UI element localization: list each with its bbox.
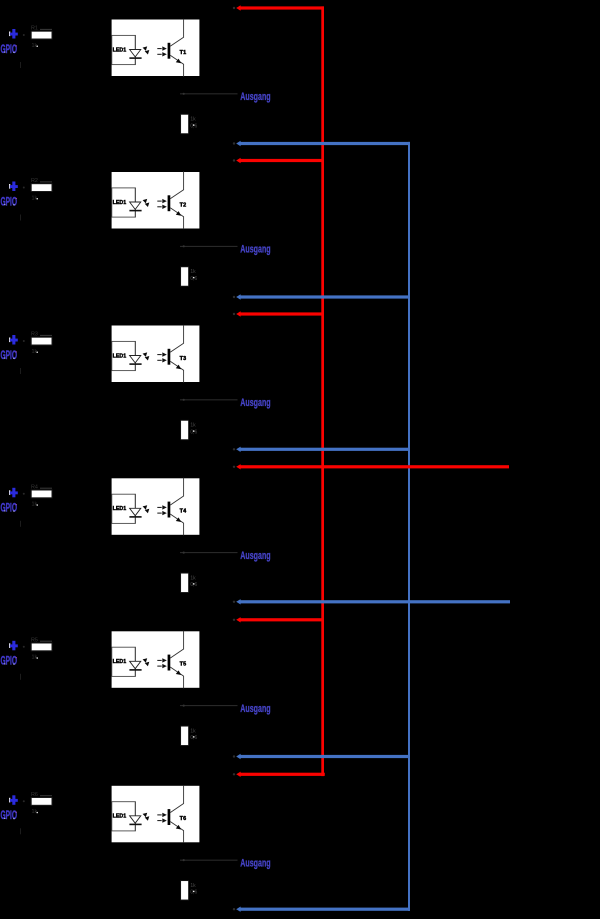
svg-text:1k: 1k (190, 575, 196, 581)
transistor T2 collector wire (170, 171, 183, 198)
wire: emitter to output port (ghost) block 1 (180, 92, 238, 95)
svg-text:R5: R5 (31, 637, 38, 643)
node: output junction dot block 2 (183, 245, 185, 247)
svg-text:0,6: 0,6 (190, 429, 197, 435)
transistor T3 emitter arrowhead (176, 365, 181, 370)
node: LED compartment box U4 (112, 494, 136, 523)
resistor R3b pulldown body (181, 420, 189, 439)
diode LED1 symbol U4 (130, 508, 141, 515)
diode LED1 symbol U5 (130, 661, 141, 668)
node: junction dot at red terminal block 2 (233, 159, 235, 161)
transistor T6 base bar (168, 809, 171, 825)
node: + input port marker block 3 (9, 338, 10, 343)
node: blue net arrow terminal block 1 (236, 141, 240, 146)
node: photo arrows into transistor U4 (157, 507, 161, 508)
svg-text:R1: R1 (31, 26, 38, 32)
svg-text:Ausgang: Ausgang (240, 244, 270, 256)
node: + input port marker block 1 (9, 32, 10, 37)
node: - return port ghost block 5 (20, 674, 21, 680)
svg-text:GPIO: GPIO (1, 196, 18, 208)
wire: GND blue line block 1 (239, 142, 410, 145)
node: red net arrow terminal block 1 (236, 5, 240, 10)
svg-text:1k: 1k (32, 195, 38, 201)
svg-text:T3: T3 (180, 356, 187, 362)
wire: emitter to output port (ghost) block 6 (180, 859, 238, 862)
transistor T5 emitter arrowhead (176, 670, 181, 675)
node: red net arrow terminal block 5 (236, 617, 240, 622)
diode LED1 cathode bar U5 (129, 669, 141, 671)
transistor T4 collector wire (170, 478, 183, 505)
node: + input port marker block 5 (9, 643, 10, 648)
transistor T3 collector wire (170, 325, 183, 352)
diode LED1 cathode bar U3 (129, 363, 141, 365)
wire: emitter to output port (ghost) block 3 (180, 398, 238, 401)
node: + input port marker block 4 (9, 490, 10, 495)
svg-text:Ausgang: Ausgang (240, 550, 270, 562)
transistor T3 emitter wire (170, 361, 183, 382)
node: output junction dot block 1 (183, 93, 185, 95)
transistor T2 base bar (168, 195, 171, 211)
svg-text:0,6: 0,6 (190, 582, 197, 588)
wire: +V red supply line block 4 (239, 465, 509, 468)
node: - return port ghost block 4 (20, 521, 21, 527)
wire: +V red supply line block 1 (239, 6, 324, 9)
svg-text:Ausgang: Ausgang (240, 703, 270, 715)
node: LED compartment box U6 (112, 802, 136, 831)
svg-text:R6: R6 (31, 792, 38, 798)
node: output junction dot block 6 (183, 859, 185, 861)
node: junction dot at red terminal block 5 (233, 619, 235, 621)
diode LED1 symbol U6 (130, 816, 141, 823)
wire: input wire junction dot block 4 (23, 493, 25, 495)
op-amp/optocoupler U5 body (111, 631, 200, 689)
wire: +V red supply line block 5 (239, 618, 324, 621)
diode LED1 anode feed wire U2 (134, 188, 136, 217)
resistor R4b pulldown body (181, 573, 189, 592)
node: - return port ghost block 3 (20, 368, 21, 374)
node: output junction dot block 4 (183, 552, 185, 554)
svg-text:0,6: 0,6 (190, 276, 197, 282)
diode LED1 anode feed wire U1 (134, 35, 136, 64)
svg-text:Ausgang: Ausgang (240, 857, 270, 869)
diode LED1 cathode bar U6 (129, 824, 141, 826)
transistor T5 base bar (168, 655, 171, 671)
svg-text:T5: T5 (180, 662, 187, 668)
node: photo arrows into transistor U2 (157, 201, 161, 202)
transistor T2 emitter arrowhead (176, 211, 181, 216)
resistor R1b pulldown body (181, 114, 189, 133)
node: LED compartment box U5 (112, 647, 136, 676)
node: output junction dot block 3 (183, 399, 185, 401)
node: junction dot at red terminal block 1 (233, 7, 235, 9)
svg-text:LED1: LED1 (113, 814, 127, 820)
node: junction dot at blue terminal block 1 (233, 142, 235, 144)
node: junction dot at blue terminal block 3 (233, 448, 235, 450)
diode LED1 cathode bar U2 (129, 210, 141, 212)
svg-text:1k: 1k (32, 809, 38, 815)
diode LED1 anode feed wire U6 (134, 802, 136, 831)
node: blue net arrow terminal block 4 (236, 599, 240, 604)
svg-text:T6: T6 (180, 816, 187, 822)
svg-text:1k: 1k (32, 655, 38, 661)
node: LED light emission arrows U1 (143, 46, 148, 51)
svg-text:1k: 1k (190, 883, 196, 889)
transistor T4 base bar (168, 502, 171, 518)
node: photo arrows into transistor U6 (157, 814, 161, 815)
node: LED compartment box U1 (112, 35, 136, 64)
wire: GND blue line block 4 (239, 600, 510, 603)
node: blue net arrow terminal block 2 (236, 294, 240, 299)
svg-text:0,6: 0,6 (190, 735, 197, 741)
node: photo arrows into transistor U5 (157, 660, 161, 661)
transistor T6 collector wire (170, 785, 183, 812)
wire: GND blue vertical bus (408, 142, 410, 911)
svg-text:GPIO: GPIO (1, 656, 18, 668)
diode LED1 symbol U2 (130, 202, 141, 209)
node: red net arrow terminal block 6 (236, 772, 240, 777)
transistor T3 base bar (168, 349, 171, 365)
node: output junction dot block 5 (183, 705, 185, 707)
svg-text:T2: T2 (180, 202, 187, 208)
transistor T1 collector wire (170, 19, 183, 46)
resistor R1 body (31, 31, 52, 39)
node: + input port marker block 6 (9, 798, 10, 803)
wire: emitter to output port (ghost) block 2 (180, 245, 238, 248)
diode LED1 symbol U1 (130, 50, 141, 57)
svg-text:GPIO: GPIO (1, 350, 18, 362)
transistor T6 emitter wire (170, 822, 183, 843)
wire: GND blue line block 2 (239, 295, 410, 298)
wire: GND blue line block 3 (239, 448, 410, 451)
transistor T6 emitter arrowhead (176, 825, 181, 830)
svg-text:1k: 1k (190, 423, 196, 429)
node: junction dot at red terminal block 6 (233, 773, 235, 775)
node: LED light emission arrows U3 (143, 352, 148, 357)
diode LED1 anode feed wire U4 (134, 494, 136, 523)
node: LED light emission arrows U6 (143, 813, 148, 818)
node: + input port marker block 2 (9, 184, 10, 189)
wire: input wire junction dot block 3 (23, 340, 25, 342)
wire: input wire junction dot block 5 (23, 646, 25, 648)
svg-text:GPIO: GPIO (1, 810, 18, 822)
resistor R5 body (31, 643, 52, 651)
transistor T5 collector wire (170, 631, 183, 658)
svg-text:1k: 1k (190, 117, 196, 123)
wire: emitter to output port (ghost) block 5 (180, 704, 238, 707)
node: red net arrow terminal block 4 (236, 464, 240, 469)
svg-text:LED1: LED1 (113, 353, 127, 359)
resistor R6 body (31, 798, 52, 806)
wire: input wire junction dot block 1 (23, 34, 25, 36)
node: - return port ghost block 1 (20, 62, 21, 68)
node: blue net arrow terminal block 6 (236, 907, 240, 912)
wire: +V red supply line block 2 (239, 159, 324, 162)
transistor T1 emitter wire (170, 55, 183, 76)
diode LED1 anode feed wire U3 (134, 341, 136, 370)
svg-text:T1: T1 (180, 50, 187, 56)
node: LED light emission arrows U2 (143, 199, 148, 204)
svg-text:LED1: LED1 (113, 47, 127, 53)
resistor R5b pulldown body (181, 726, 189, 745)
transistor T4 emitter arrowhead (176, 517, 181, 522)
svg-text:Ausgang: Ausgang (240, 91, 270, 103)
node: LED compartment box U3 (112, 341, 136, 370)
svg-text:LED1: LED1 (113, 200, 127, 206)
node: junction dot at blue terminal block 4 (233, 601, 235, 603)
node: LED light emission arrows U5 (143, 658, 148, 663)
op-amp/optocoupler U2 body (111, 171, 200, 229)
node: junction dot at red terminal block 3 (233, 313, 235, 315)
wire: +V red supply line block 6 (239, 773, 325, 776)
svg-text:Ausgang: Ausgang (240, 397, 270, 409)
node: blue net arrow terminal block 5 (236, 754, 240, 759)
svg-text:0,6: 0,6 (190, 890, 197, 896)
wire: emitter to output port (ghost) block 4 (180, 551, 238, 554)
node: - return port ghost block 6 (20, 828, 21, 834)
diode LED1 cathode bar U1 (129, 57, 141, 59)
resistor R4 body (31, 490, 52, 498)
svg-text:LED1: LED1 (113, 506, 127, 512)
wire: input wire junction dot block 6 (23, 800, 25, 802)
node: LED compartment box U2 (112, 188, 136, 217)
op-amp/optocoupler U4 body (111, 478, 200, 536)
node: junction dot at red terminal block 4 (233, 466, 235, 468)
svg-text:1k: 1k (190, 728, 196, 734)
resistor R2 body (31, 184, 52, 192)
node: red net arrow terminal block 2 (236, 158, 240, 163)
node: - return port ghost block 2 (20, 215, 21, 221)
transistor T5 emitter wire (170, 667, 183, 688)
op-amp/optocoupler U1 body (111, 19, 200, 77)
resistor R2b pulldown body (181, 267, 189, 286)
node: blue net arrow terminal block 3 (236, 447, 240, 452)
node: junction dot at blue terminal block 2 (233, 296, 235, 298)
node: LED light emission arrows U4 (143, 505, 148, 510)
resistor R3 body (31, 337, 52, 345)
op-amp/optocoupler U6 body (111, 785, 200, 843)
svg-text:GPIO: GPIO (1, 44, 18, 56)
wire: input wire junction dot block 2 (23, 187, 25, 189)
node: photo arrows into transistor U1 (157, 48, 161, 49)
transistor T4 emitter wire (170, 514, 183, 535)
diode LED1 symbol U3 (130, 356, 141, 363)
node: red net arrow terminal block 3 (236, 311, 240, 316)
diode LED1 cathode bar U4 (129, 516, 141, 518)
svg-text:1k: 1k (32, 349, 38, 355)
svg-text:T4: T4 (180, 509, 188, 515)
svg-text:0,6: 0,6 (190, 123, 197, 129)
op-amp/optocoupler U3 body (111, 325, 200, 383)
wire: GND blue line block 5 (239, 755, 410, 758)
svg-text:1k: 1k (32, 43, 38, 49)
svg-text:GPIO: GPIO (1, 503, 18, 515)
svg-text:1k: 1k (190, 269, 196, 275)
node: junction dot at blue terminal block 6 (233, 908, 235, 910)
wire: +V red supply line block 3 (239, 312, 324, 315)
wire: +V red vertical bus (321, 6, 324, 776)
svg-text:1k: 1k (32, 502, 38, 508)
transistor T1 base bar (168, 43, 171, 59)
resistor R6b pulldown body (181, 881, 189, 900)
transistor T2 emitter wire (170, 208, 183, 229)
transistor T1 emitter arrowhead (176, 59, 181, 64)
node: photo arrows into transistor U3 (157, 354, 161, 355)
svg-text:LED1: LED1 (113, 659, 127, 665)
wire: GND blue line block 6 (239, 908, 410, 911)
diode LED1 anode feed wire U5 (134, 647, 136, 676)
node: junction dot at blue terminal block 5 (233, 755, 235, 757)
